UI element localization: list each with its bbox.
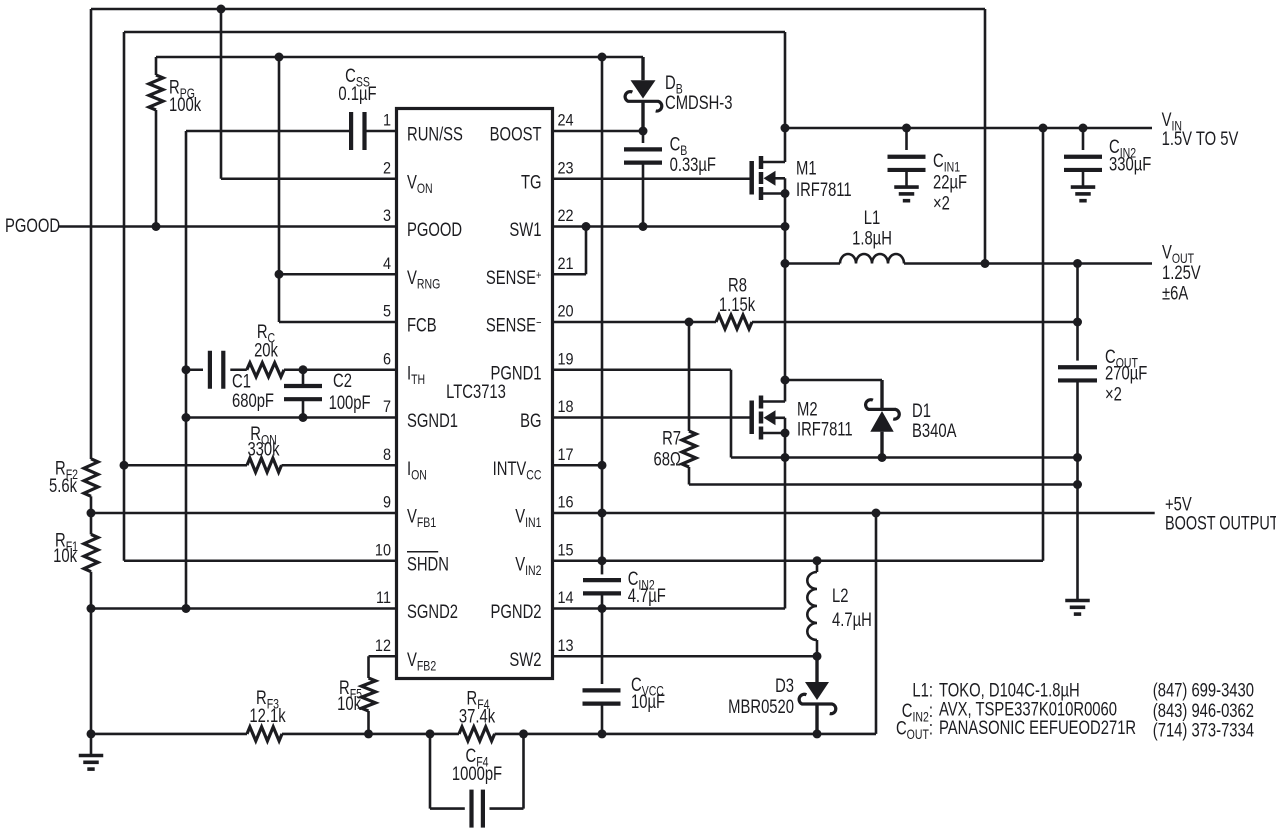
wire INTVCC top bus [156, 56, 643, 59]
wire VON vertical [220, 9, 223, 179]
svg-text:22µF: 22µF [933, 172, 967, 193]
svg-text:L1:: L1: [912, 680, 933, 701]
transistor M1 IRF7811 [749, 161, 754, 195]
svg-text:23: 23 [558, 159, 574, 177]
node CF4 right junction [519, 729, 528, 738]
svg-text:4.7µF: 4.7µF [628, 585, 666, 606]
svg-text:1.5V TO 5V: 1.5V TO 5V [1162, 128, 1239, 149]
svg-text:×2: ×2 [1105, 384, 1122, 405]
svg-text:5: 5 [383, 302, 391, 320]
svg-text:0.1µF: 0.1µF [338, 83, 376, 104]
svg-text:24: 24 [558, 111, 574, 129]
svg-text:330k: 330k [247, 439, 280, 460]
wire CVCC branch [601, 609, 604, 685]
resistor RC [247, 363, 284, 377]
svg-text:M2: M2 [797, 399, 818, 420]
wire ITH row [186, 368, 203, 371]
wire BG row [553, 416, 752, 419]
node COUT top junction [1073, 259, 1082, 268]
svg-text:37.4k: 37.4k [459, 706, 496, 727]
svg-text:SW2: SW2 [509, 649, 541, 670]
svg-text:2: 2 [383, 159, 391, 177]
svg-text:B340A: B340A [912, 420, 957, 441]
svg-text:1.25V: 1.25V [1162, 262, 1201, 283]
node INTVCC tap [275, 53, 284, 62]
wire VFB1 row [91, 512, 397, 515]
node RPG-PGOOD junction [152, 222, 161, 231]
svg-text:17: 17 [558, 446, 574, 464]
svg-text:10µF: 10µF [631, 691, 665, 712]
svg-text:R8: R8 [728, 275, 747, 296]
resistor RON [247, 458, 282, 472]
svg-text:SENSE+: SENSE+ [486, 267, 542, 288]
capacitor C2 [284, 384, 322, 388]
node CF4 left junction [426, 729, 435, 738]
svg-text:PGND2: PGND2 [491, 601, 542, 622]
svg-text:21: 21 [558, 255, 574, 273]
svg-text:CMDSH-3: CMDSH-3 [665, 92, 732, 113]
node ION-RON junction [120, 461, 129, 470]
svg-text:PANASONIC EEFUEOD271R: PANASONIC EEFUEOD271R [939, 717, 1136, 738]
capacitor C1 [208, 351, 212, 389]
node C2 bottom junction [299, 413, 308, 422]
svg-text:×2: ×2 [933, 193, 950, 214]
svg-text:SENSE−: SENSE− [486, 315, 542, 336]
svg-text:LTC3713: LTC3713 [446, 381, 506, 402]
wire left VOUT feedback vertical [90, 9, 93, 459]
wire SENSE+ jog [553, 273, 587, 276]
svg-text:TG: TG [521, 172, 542, 193]
capacitor CIN1 [905, 128, 908, 150]
svg-text:19: 19 [558, 350, 574, 368]
svg-text:BOOST OUTPUT: BOOST OUTPUT [1165, 513, 1276, 534]
wire D1 tap [785, 379, 882, 382]
node PGND M2 junction [781, 453, 790, 462]
node VIN2 join [598, 556, 607, 565]
svg-text:3: 3 [383, 207, 391, 225]
node SENSE- COUT junction [1073, 318, 1082, 327]
svg-text:±6A: ±6A [1162, 283, 1189, 304]
svg-text:IRF7811: IRF7811 [796, 179, 852, 200]
node +5V down junction [872, 509, 881, 518]
svg-text:11: 11 [376, 589, 391, 607]
wire top-line drop [984, 9, 987, 264]
svg-text:12: 12 [375, 637, 391, 655]
wire VFB1 divider segment [90, 496, 93, 534]
wire bottom bus [91, 733, 247, 736]
node R8 left junction [685, 318, 694, 327]
wire TG row [553, 177, 752, 180]
svg-text:R7: R7 [662, 428, 681, 449]
svg-text:22: 22 [558, 207, 574, 225]
node C2 top junction [299, 365, 308, 374]
wire ground segment left [90, 572, 93, 756]
node CIN2 junction [1079, 124, 1088, 133]
wire FCB row [279, 321, 397, 324]
svg-text:(843) 946-0362: (843) 946-0362 [1153, 700, 1254, 721]
node CVCC bus junction [598, 729, 607, 738]
svg-text:68Ω: 68Ω [653, 449, 681, 470]
svg-text:5.6k: 5.6k [49, 475, 77, 496]
svg-text:RUN/SS: RUN/SS [407, 124, 463, 145]
svg-text:BOOST: BOOST [490, 124, 542, 145]
wire SGND1 row [186, 416, 397, 419]
node SGND1 tap [182, 413, 191, 422]
node PGND COUT junction [1073, 453, 1082, 462]
capacitor CSS [349, 112, 353, 150]
svg-text:SGND2: SGND2 [407, 601, 458, 622]
resistor RF3 [247, 727, 282, 741]
svg-text:IRF7811: IRF7811 [797, 419, 853, 440]
resistor RF4 [459, 727, 495, 741]
node INTVCC pin join [598, 461, 607, 470]
wire RUN/SS [186, 130, 351, 133]
svg-text:4: 4 [383, 255, 391, 273]
svg-text:15: 15 [558, 541, 574, 559]
IC U1 LTC3713 box [397, 109, 553, 679]
node ground-bus junction [87, 729, 96, 738]
resistor R8 [716, 315, 752, 329]
node CB bottom junction [639, 222, 648, 231]
wire SW node vertical [784, 227, 787, 402]
wire VON row [221, 177, 397, 180]
node VRNG tap [275, 270, 284, 279]
wire VRNG row [279, 273, 397, 276]
node DB-CB junction [639, 127, 648, 136]
wire VRNG-FCB vertical [278, 57, 281, 322]
wire DB to BOOST [641, 101, 644, 131]
node INTVCC rail top [598, 53, 607, 62]
svg-text:1.15k: 1.15k [719, 294, 756, 315]
svg-text:SW1: SW1 [509, 219, 541, 240]
svg-text:10k: 10k [53, 545, 77, 566]
svg-text:20: 20 [558, 302, 574, 320]
ground CIN1 [894, 185, 919, 189]
wire SGND vertical [185, 131, 188, 609]
wire SGND2 row [91, 607, 397, 610]
svg-text:D1: D1 [912, 400, 931, 421]
svg-text:SHDN: SHDN [407, 554, 449, 575]
wire VFB2 jog [369, 655, 397, 658]
resistor R7 [682, 431, 696, 467]
wire R7 to output gnd [688, 467, 691, 485]
node SW1-M1 junction [781, 222, 790, 231]
svg-text:MBR0520: MBR0520 [728, 696, 794, 717]
inductor L2 [816, 561, 819, 572]
wire PGOOD row [59, 225, 397, 228]
node SGND2 end [182, 604, 191, 613]
capacitor CIN2b 4.7uF [601, 561, 604, 575]
svg-text:100k: 100k [169, 94, 202, 115]
wire CF4 left branch [429, 734, 432, 809]
wire BOOST row [553, 130, 644, 133]
svg-text:680pF: 680pF [232, 390, 274, 411]
svg-text:(847) 699-3430: (847) 699-3430 [1153, 680, 1254, 701]
wire R8 to R7 [688, 322, 691, 431]
wire +5V to bus vertical [875, 513, 878, 734]
svg-text:13: 13 [558, 637, 574, 655]
svg-text:20k: 20k [254, 340, 278, 361]
resistor RF5 [362, 678, 376, 711]
wire RF5 to bus [367, 711, 370, 734]
svg-text:1: 1 [383, 111, 391, 129]
svg-text:TOKO, D104C-1.8µH: TOKO, D104C-1.8µH [939, 680, 1080, 701]
transistor M2 IRF7811 [749, 401, 754, 435]
diode DB CMDSH-3 [631, 80, 656, 98]
svg-text:BG: BG [520, 410, 541, 431]
wire ION row [124, 464, 247, 467]
svg-text:9: 9 [383, 493, 391, 511]
svg-text:L2: L2 [832, 585, 848, 606]
wire VIN2 row [553, 559, 1044, 562]
svg-text:C1: C1 [232, 371, 251, 392]
node VOUT top junction [981, 259, 990, 268]
capacitor CB [642, 131, 645, 143]
svg-text:1.8µH: 1.8µH [852, 228, 892, 249]
wire SW1 row [553, 225, 786, 228]
wire RPG to PGOOD line [155, 110, 158, 227]
node VFB1 tap [87, 509, 96, 518]
diode D3 MBR0520 [815, 656, 818, 682]
svg-text:4.7µH: 4.7µH [832, 609, 872, 630]
svg-text:6: 6 [383, 350, 391, 368]
svg-text:14: 14 [558, 589, 574, 607]
node D1 tap junction [781, 376, 790, 385]
capacitor COUT [1076, 264, 1079, 361]
svg-text:16: 16 [558, 493, 574, 511]
svg-text:10k: 10k [337, 693, 361, 714]
wire INTVCC rail vertical [601, 57, 604, 561]
svg-text:100pF: 100pF [329, 392, 371, 413]
wire VIN rail [785, 127, 1152, 130]
svg-text:1000pF: 1000pF [452, 763, 502, 784]
svg-text:D3: D3 [775, 675, 794, 696]
wire SW2 row [553, 655, 818, 658]
wire INTVCC to RPG [155, 57, 158, 75]
wire PGND1 route [553, 368, 732, 371]
wire VIN left vertical [123, 32, 126, 561]
svg-text:M1: M1 [796, 158, 817, 179]
resistor RF2 [84, 459, 98, 497]
capacitor CIN2 330uF [1082, 128, 1085, 150]
wire INTVCC to DB [641, 57, 644, 80]
inductor L1 [840, 254, 904, 263]
svg-text:330µF: 330µF [1109, 154, 1151, 175]
wire INTVCC row [553, 464, 603, 467]
node CIN2b bottom junction [598, 604, 607, 613]
svg-text:10: 10 [375, 541, 391, 559]
capacitor CF4 [469, 790, 473, 828]
node RF5 bus junction [364, 729, 373, 738]
svg-text:12.1k: 12.1k [249, 705, 286, 726]
node C1 tap [182, 365, 191, 374]
node SGND tap [87, 604, 96, 613]
node VON top-line junction [217, 5, 226, 14]
wire VIN drop vertical [784, 32, 787, 162]
svg-text:PGOOD: PGOOD [407, 219, 462, 240]
node VIN1 join [598, 509, 607, 518]
resistor RPG [149, 75, 163, 110]
node SENSE+ junction [582, 222, 591, 231]
node VOUT-L1 junction [781, 259, 790, 268]
diode D1 B340A [880, 380, 883, 409]
node VIN-rail down junction [1039, 124, 1048, 133]
svg-text:PGOOD: PGOOD [5, 215, 60, 236]
svg-text:SGND1: SGND1 [407, 410, 458, 431]
svg-text:8: 8 [383, 446, 391, 464]
resistor RF1 [84, 534, 98, 571]
svg-text:18: 18 [558, 398, 574, 416]
wire VIN1 +5V row [553, 512, 1155, 515]
svg-text:0.33µF: 0.33µF [670, 154, 716, 175]
node L2 top junction [813, 556, 822, 565]
wire SHDN row [124, 559, 397, 562]
node VIN M1 junction [781, 124, 790, 133]
ground CIN2 [1071, 185, 1096, 189]
svg-text:C2: C2 [333, 370, 352, 391]
wire VOUT top bus [91, 8, 985, 11]
svg-text:(714) 373-7334: (714) 373-7334 [1153, 720, 1254, 741]
ground output [1065, 599, 1090, 603]
wire SENSE- row [553, 321, 717, 324]
node PGND D1 junction [878, 453, 887, 462]
wire CF4 right branch [522, 734, 525, 809]
svg-text:L1: L1 [864, 207, 880, 228]
ground [79, 754, 104, 758]
wire VIN top bus [124, 31, 785, 34]
wire VOUT rail [785, 262, 840, 265]
node CIN1 junction [902, 124, 911, 133]
svg-text:270µF: 270µF [1105, 363, 1147, 384]
node R7 gnd junction [1073, 480, 1082, 489]
svg-text:7: 7 [383, 398, 391, 416]
node SW2-L2 junction [813, 652, 822, 661]
node D3 bus junction [813, 729, 822, 738]
wire PGND2 row [553, 607, 786, 610]
svg-text:FCB: FCB [407, 315, 437, 336]
